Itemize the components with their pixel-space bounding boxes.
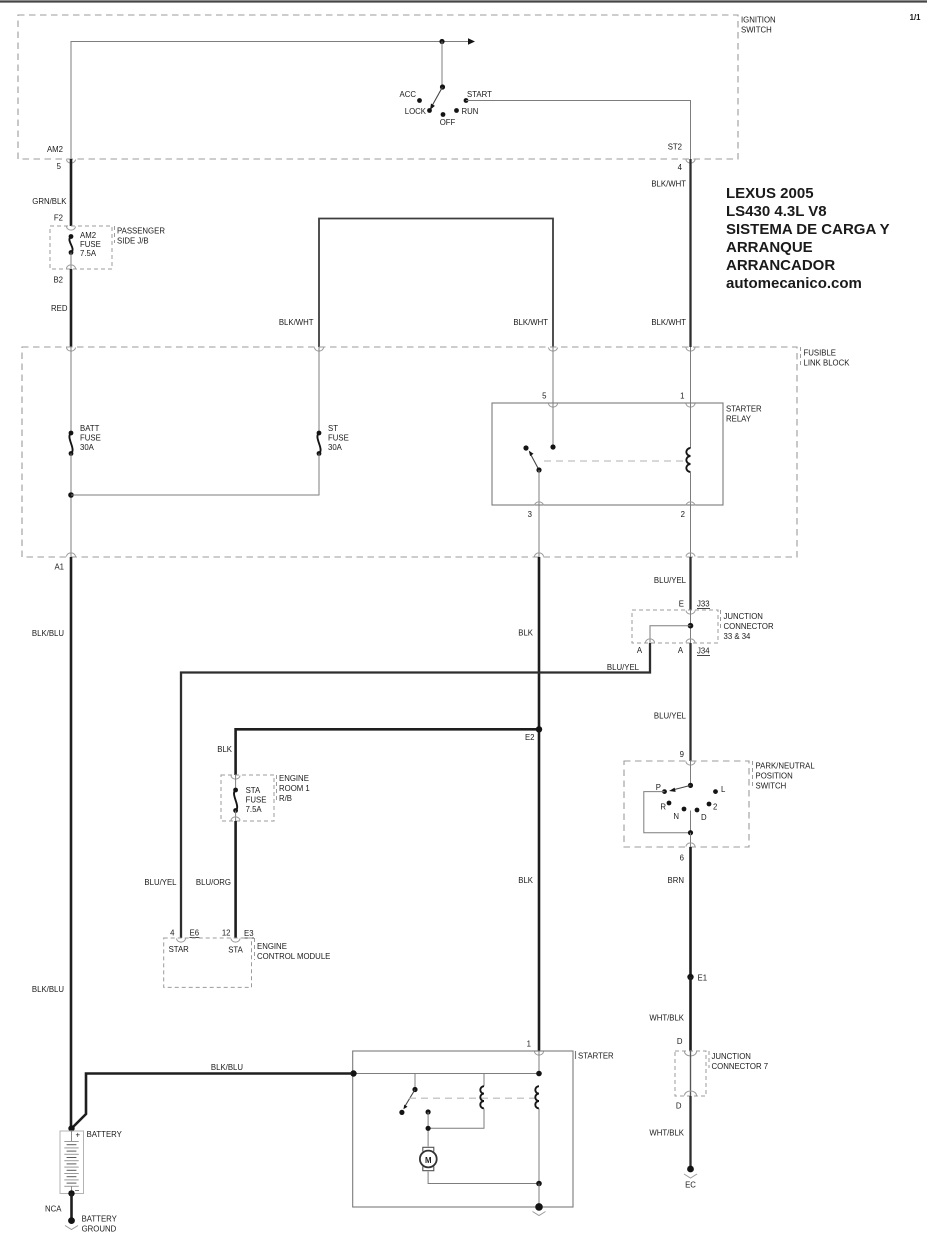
svg-text:STAR: STAR <box>169 945 190 954</box>
pin 6 <box>680 843 695 863</box>
starter motor box <box>353 1051 614 1207</box>
svg-text:BLK/BLU: BLK/BLU <box>32 629 64 638</box>
starter pin1 inner lead <box>538 1051 540 1074</box>
starter switch riser <box>414 1074 416 1090</box>
svg-text:GROUND: GROUND <box>82 1225 117 1234</box>
ignition switch pivot wire <box>441 42 443 88</box>
svg-text:BLU/YEL: BLU/YEL <box>654 576 687 585</box>
PNP movable arm <box>674 785 691 789</box>
wire BLK middle column (relay 3 to starter 1) <box>538 557 541 1051</box>
svg-text:AM2: AM2 <box>47 145 63 154</box>
starter switch fixed contact <box>426 1109 431 1114</box>
park/neutral position switch box <box>624 761 815 847</box>
svg-text:WHT/BLK: WHT/BLK <box>649 1129 684 1138</box>
wire BLU/YEL relay 2 to J33 <box>689 557 691 610</box>
svg-text:7.5A: 7.5A <box>246 805 263 814</box>
svg-text:IGNITION: IGNITION <box>741 16 776 25</box>
svg-text:9: 9 <box>680 750 684 759</box>
svg-text:PASSENGER: PASSENGER <box>117 227 165 236</box>
pull-in coil <box>480 1086 484 1108</box>
svg-text:1: 1 <box>680 392 684 401</box>
svg-text:E2: E2 <box>525 733 535 742</box>
svg-text:2: 2 <box>681 510 685 519</box>
wire BLK/WHT from ST2 down <box>689 159 691 347</box>
svg-text:ARRANCADOR: ARRANCADOR <box>726 257 835 274</box>
junction connector 7 internal lead <box>690 1051 692 1096</box>
svg-text:ROOM 1: ROOM 1 <box>279 784 310 793</box>
svg-text:BLK/BLU: BLK/BLU <box>32 985 64 994</box>
svg-text:JUNCTION: JUNCTION <box>724 612 763 621</box>
svg-text:M: M <box>425 1156 432 1165</box>
svg-text:NCA: NCA <box>45 1205 62 1214</box>
wire BLU/ORG <box>234 821 237 938</box>
svg-text:SISTEMA DE CARGA Y: SISTEMA DE CARGA Y <box>726 221 890 238</box>
svg-text:1/1: 1/1 <box>910 13 922 22</box>
hold-in coil return <box>538 1109 540 1184</box>
svg-text:30A: 30A <box>80 443 95 452</box>
svg-text:LEXUS 2005: LEXUS 2005 <box>726 185 814 202</box>
pin 9 <box>680 750 695 765</box>
svg-text:A1: A1 <box>54 563 64 572</box>
wire START to ST2 <box>466 101 691 160</box>
node A1 <box>54 553 75 572</box>
svg-text:RELAY: RELAY <box>726 415 752 424</box>
svg-text:30A: 30A <box>328 443 343 452</box>
wire BRN <box>689 847 692 977</box>
relay pin 5 <box>542 347 557 407</box>
svg-text:AM2: AM2 <box>80 231 96 240</box>
svg-text:GRN/BLK: GRN/BLK <box>32 197 67 206</box>
pull-in coil return <box>428 1109 484 1129</box>
svg-text:PARK/NEUTRAL: PARK/NEUTRAL <box>756 762 816 771</box>
svg-text:E3: E3 <box>244 929 254 938</box>
fuse STA 7.5A <box>231 775 266 821</box>
svg-text:E1: E1 <box>698 974 708 983</box>
svg-text:RUN: RUN <box>462 107 479 116</box>
svg-text:R/B: R/B <box>279 794 292 803</box>
svg-text:LINK BLOCK: LINK BLOCK <box>804 359 851 368</box>
wire BLK/BLU left column <box>70 557 73 1129</box>
svg-text:BLK: BLK <box>518 876 534 885</box>
junction connector 7 box <box>675 1051 768 1096</box>
relay pin 5 inner lead <box>552 403 554 447</box>
wire BLU/YEL J34 to PNP switch <box>689 643 691 761</box>
engine control module box <box>164 938 331 987</box>
junction connector 33 & 34 box <box>632 610 774 643</box>
svg-text:ST: ST <box>328 424 338 433</box>
svg-text:7.5A: 7.5A <box>80 249 97 258</box>
fuse BATT 30A <box>69 347 101 456</box>
relay coil feed pin 1 <box>680 347 695 448</box>
pin collar A1 wire at box top <box>67 348 76 352</box>
svg-text:BLK/WHT: BLK/WHT <box>513 318 548 327</box>
svg-text:STA: STA <box>228 946 243 955</box>
svg-text:12: 12 <box>222 929 231 938</box>
passenger side J/B box <box>50 226 165 269</box>
svg-text:START: START <box>467 90 492 99</box>
relay pin 3 lead <box>538 470 540 505</box>
starter switch arm <box>405 1090 416 1108</box>
motor feed <box>427 1112 429 1147</box>
svg-text:D: D <box>676 1102 682 1111</box>
svg-text:CONNECTOR 7: CONNECTOR 7 <box>712 1062 769 1071</box>
junction dot at arrow branch <box>439 39 444 44</box>
PNP feed lead <box>690 761 692 785</box>
svg-text:E6: E6 <box>190 929 200 938</box>
svg-text:3: 3 <box>528 510 532 519</box>
wire BLK/BLU battery to starter <box>72 1074 353 1129</box>
PNP P-contact return path <box>644 792 691 833</box>
wire BATT fuse down to junction <box>70 454 72 558</box>
pin collar relay5 wire at box top <box>549 348 558 352</box>
svg-text:BLK: BLK <box>518 629 534 638</box>
svg-text:B2: B2 <box>53 276 63 285</box>
svg-text:RED: RED <box>51 304 68 313</box>
relay pin 2 lead <box>690 472 692 505</box>
starter relay box <box>492 403 762 505</box>
svg-text:SWITCH: SWITCH <box>756 782 787 791</box>
svg-text:BATTERY: BATTERY <box>87 1130 123 1139</box>
starter internal bus <box>353 1073 539 1075</box>
svg-text:FUSE: FUSE <box>246 796 267 805</box>
arrowhead <box>468 38 475 45</box>
svg-text:BATTERY: BATTERY <box>82 1215 118 1224</box>
svg-text:FUSE: FUSE <box>80 240 101 249</box>
relay pin 2 <box>681 502 695 557</box>
node E / J33 <box>679 600 710 615</box>
svg-text:A: A <box>678 646 684 655</box>
ignition switch pivot dot <box>440 84 445 89</box>
engine room 1 R/B box <box>221 774 310 821</box>
svg-text:ACC: ACC <box>400 90 417 99</box>
contact ACC <box>417 98 422 103</box>
svg-text:ST2: ST2 <box>668 143 682 152</box>
PNP contacts <box>656 783 726 822</box>
svg-text:automecanico.com: automecanico.com <box>726 275 862 292</box>
svg-text:J33: J33 <box>697 600 710 609</box>
fusible link block box <box>22 347 850 557</box>
svg-text:A: A <box>637 646 643 655</box>
svg-text:L: L <box>721 785 726 794</box>
wire arrow stub <box>442 41 468 43</box>
svg-text:STA: STA <box>246 786 261 795</box>
svg-text:FUSE: FUSE <box>328 434 349 443</box>
svg-text:BLU/YEL: BLU/YEL <box>654 712 687 721</box>
svg-text:BLU/YEL: BLU/YEL <box>144 878 177 887</box>
svg-text:E: E <box>679 600 684 609</box>
pin D upper <box>677 1037 697 1056</box>
starter ground lead <box>538 1184 540 1207</box>
svg-text:JUNCTION: JUNCTION <box>712 1052 751 1061</box>
svg-text:BLK: BLK <box>217 745 233 754</box>
starter solenoid link (dashed) <box>409 1097 539 1099</box>
svg-text:4: 4 <box>170 929 175 938</box>
wire WHT/BLK to EC <box>689 1096 691 1169</box>
junction connector internal bus <box>690 610 692 643</box>
svg-text:LOCK: LOCK <box>405 107 427 116</box>
svg-text:STARTER: STARTER <box>726 405 762 414</box>
svg-text:2: 2 <box>713 803 717 812</box>
svg-text:BATT: BATT <box>80 424 100 433</box>
node ST2 pin 4 <box>668 143 695 173</box>
node AM2 pin 5 <box>47 145 76 171</box>
svg-text:BLK/WHT: BLK/WHT <box>651 180 686 189</box>
svg-text:BLK/BLU: BLK/BLU <box>211 1063 243 1072</box>
svg-text:R: R <box>660 803 666 812</box>
svg-text:F2: F2 <box>54 214 63 223</box>
page top rule <box>0 0 927 2</box>
relay movable arm <box>531 455 539 470</box>
svg-text:STARTER: STARTER <box>578 1052 614 1061</box>
battery ground <box>65 1215 118 1234</box>
starter pin 1 <box>527 1040 544 1056</box>
wire ST fuse to BATT junction <box>71 454 319 496</box>
svg-text:SIDE J/B: SIDE J/B <box>117 237 149 246</box>
fuse AM2 7.5A <box>67 227 101 270</box>
contact OFF <box>441 112 446 117</box>
svg-text:N: N <box>673 812 679 821</box>
wire GRN/BLK <box>70 159 73 226</box>
svg-text:ARRANQUE: ARRANQUE <box>726 239 813 256</box>
svg-text:BLU/ORG: BLU/ORG <box>196 878 231 887</box>
starter ground <box>533 1203 546 1215</box>
wire BLU/YEL to ECM pin 4 <box>181 643 650 938</box>
svg-text:BLK/WHT: BLK/WHT <box>651 318 686 327</box>
svg-text:FUSE: FUSE <box>80 434 101 443</box>
svg-text:J34: J34 <box>697 647 710 656</box>
motor M1 <box>420 1147 437 1170</box>
svg-text:CONNECTOR: CONNECTOR <box>724 622 774 631</box>
svg-text:+: + <box>76 1131 81 1140</box>
svg-text:CONTROL MODULE: CONTROL MODULE <box>257 952 330 961</box>
svg-text:EC: EC <box>685 1181 696 1190</box>
svg-text:SWITCH: SWITCH <box>741 26 772 35</box>
svg-text:D: D <box>701 813 707 822</box>
fuse ST 30A <box>317 347 349 456</box>
pin collar ST-fuse wire at box top <box>315 348 324 352</box>
svg-text:ENGINE: ENGINE <box>279 774 309 783</box>
svg-text:WHT/BLK: WHT/BLK <box>649 1014 684 1023</box>
ignition switch box <box>18 15 776 159</box>
svg-text:5: 5 <box>57 162 62 171</box>
ignition switch arm <box>433 87 443 105</box>
pin collar relay1 wire at box top <box>686 348 695 352</box>
svg-text:5: 5 <box>542 392 547 401</box>
wire BLK/WHT U-link (ST fuse to relay pin 5) <box>319 219 553 348</box>
ECM pins 4 E6 12 E3 <box>170 929 254 943</box>
battery ground lead NCA <box>45 1190 75 1220</box>
svg-text:6: 6 <box>680 854 684 863</box>
svg-text:ENGINE: ENGINE <box>257 942 287 951</box>
wire AM2 feed (left vertical + top horizontal) <box>71 42 442 160</box>
svg-text:POSITION: POSITION <box>756 772 793 781</box>
pins A A J34 <box>637 639 710 656</box>
wire WHT/BLK to JC7 <box>689 977 692 1051</box>
svg-text:D: D <box>677 1037 683 1046</box>
svg-text:P: P <box>656 783 661 792</box>
wire RED <box>70 269 73 347</box>
hold-in coil <box>535 1086 539 1108</box>
svg-text:LS430 4.3L V8: LS430 4.3L V8 <box>726 203 827 220</box>
node E1 <box>687 974 693 980</box>
contact START <box>464 98 469 103</box>
ground EC <box>684 1166 697 1190</box>
svg-text:BLU/YEL: BLU/YEL <box>607 663 640 672</box>
contact LOCK <box>427 108 432 113</box>
junction dot BATT/ST <box>68 492 74 498</box>
wire BLK to engine room fuse (E2 branch) <box>236 729 539 775</box>
motor return <box>428 1172 539 1184</box>
svg-text:BLK/WHT: BLK/WHT <box>279 318 314 327</box>
relay pin 3 <box>528 502 544 557</box>
relay fixed contact <box>523 445 528 450</box>
relay coil U1 <box>686 448 690 472</box>
battery <box>60 1125 123 1193</box>
contact RUN <box>454 108 459 113</box>
pull-in coil riser <box>483 1074 485 1087</box>
svg-text:FUSIBLE: FUSIBLE <box>804 349 837 358</box>
svg-text:OFF: OFF <box>440 118 456 127</box>
title block <box>726 185 890 292</box>
svg-text:BRN: BRN <box>668 876 684 885</box>
svg-text:4: 4 <box>678 163 683 172</box>
svg-text:1: 1 <box>527 1040 531 1049</box>
svg-text:33 & 34: 33 & 34 <box>724 632 752 641</box>
relay link (dashed) <box>544 460 683 462</box>
node E2 <box>536 726 542 732</box>
